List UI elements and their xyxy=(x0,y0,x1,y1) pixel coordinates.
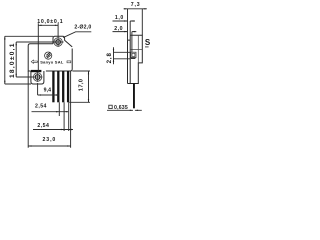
svg-text:S: S xyxy=(145,38,150,47)
dim 10,0±0,1 xyxy=(38,23,58,71)
svg-text:10,0±0,1: 10,0±0,1 xyxy=(37,19,63,25)
hole H2 bottom-left: crosshair target xyxy=(33,73,41,81)
svg-text:18,0±0,1: 18,0±0,1 xyxy=(9,42,16,78)
svg-text:0,635: 0,635 xyxy=(114,105,128,111)
outer-left dim line (tab top to tab bottom) xyxy=(5,36,53,84)
side body inner lines xyxy=(130,35,142,63)
dim 2,54 second xyxy=(33,129,73,131)
logo circle xyxy=(45,52,52,59)
dim 23,0 xyxy=(28,145,70,147)
top-right mounting tab xyxy=(53,36,72,47)
dim 7,3 xyxy=(124,9,147,40)
svg-text:1,0: 1,0 xyxy=(115,15,124,21)
side tab front face xyxy=(128,40,131,83)
pins P1-P4 xyxy=(52,71,54,102)
side pin detail nested rect xyxy=(131,52,136,57)
side body outline xyxy=(128,35,143,83)
svg-text:Sanyo SAL: Sanyo SAL xyxy=(40,60,64,65)
dim 1,0 xyxy=(113,21,136,35)
pin extension lines xyxy=(28,71,70,148)
dim 17,0 vertical between views xyxy=(69,71,90,102)
hole H1 top-right: crosshair target xyxy=(54,38,62,46)
black bar above bottom hole xyxy=(31,70,41,72)
svg-text:2,8: 2,8 xyxy=(106,52,113,63)
svg-text:9,4: 9,4 xyxy=(44,88,52,94)
right edge small rect xyxy=(67,61,71,63)
svg-text:17,0: 17,0 xyxy=(79,79,85,91)
bottom-left mounting tab xyxy=(31,71,44,84)
side pin xyxy=(133,84,135,109)
dim 9,4 xyxy=(38,83,60,95)
svg-text:2,0: 2,0 xyxy=(114,26,123,32)
dim 2,54 first xyxy=(32,111,69,113)
svg-text:7,3: 7,3 xyxy=(131,2,141,8)
svg-text:2,54: 2,54 xyxy=(37,123,49,129)
svg-text:23,0: 23,0 xyxy=(43,137,57,143)
svg-text:2,54: 2,54 xyxy=(35,103,47,109)
dim 2,8 vertical xyxy=(114,47,131,64)
svg-text:2-Ø2,0: 2-Ø2,0 xyxy=(74,24,91,30)
package body front view xyxy=(28,44,72,71)
dim 2,0 xyxy=(113,32,137,53)
dim square 0,635 xyxy=(107,109,142,111)
dim 18,0±0,1 vertical xyxy=(16,42,63,77)
left edge arrow marker xyxy=(31,60,37,63)
